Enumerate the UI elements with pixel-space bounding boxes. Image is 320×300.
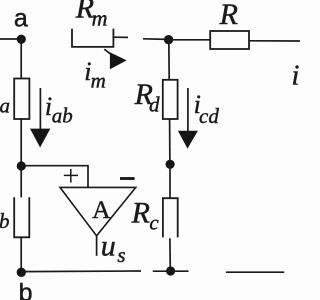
wire Rb to node b xyxy=(20,237,22,272)
svg-text:u: u xyxy=(101,229,116,262)
svg-text:R: R xyxy=(131,197,150,230)
wire node down to Rd xyxy=(168,40,170,80)
resistor Rm label xyxy=(75,0,108,30)
resistor Rd label xyxy=(134,78,160,116)
resistor Rc label xyxy=(131,197,160,235)
wire Rc to bottom node xyxy=(169,238,171,271)
wire to op-amp + input xyxy=(21,166,88,188)
resistor Rc (open bottom) xyxy=(163,198,178,237)
output voltage label u_s xyxy=(101,229,126,267)
svg-text:ab: ab xyxy=(52,104,73,128)
op-amp output lead xyxy=(96,236,98,256)
resistor R xyxy=(210,31,249,49)
svg-text:a: a xyxy=(14,5,28,33)
wire Ra to mid-left node xyxy=(20,119,22,166)
wire mid-left node down to Rb xyxy=(20,166,22,197)
resistor Rb (open top) xyxy=(14,197,29,237)
svg-text:d: d xyxy=(149,93,160,117)
node between Rd and Rc (d) xyxy=(166,160,175,169)
current label i_ab xyxy=(45,92,73,128)
svg-text:b: b xyxy=(0,209,10,233)
current label i_cd xyxy=(194,90,220,128)
wire bottom-right segment xyxy=(226,271,284,273)
wire Rd to mid node xyxy=(169,119,171,164)
wire bottom segment from node b xyxy=(21,270,141,273)
current arrow i_ab xyxy=(30,88,50,148)
svg-text:m: m xyxy=(91,68,106,92)
svg-text:m: m xyxy=(92,5,108,30)
wire stub right of Rm xyxy=(113,36,128,38)
wire R to right edge xyxy=(249,40,300,42)
op-amp + terminal xyxy=(64,169,78,183)
resistor Ra xyxy=(14,79,29,120)
wire node to resistor R xyxy=(169,39,211,41)
resistor Rm (open top) xyxy=(72,29,113,47)
wire into top-middle node xyxy=(143,38,168,41)
op-amp - terminal xyxy=(120,177,135,180)
resistor Rd xyxy=(163,80,178,119)
wire node a down to Ra xyxy=(20,39,22,79)
svg-text:cd: cd xyxy=(199,104,219,128)
svg-text:R: R xyxy=(219,0,238,31)
wire node down to Rc xyxy=(169,164,171,198)
svg-text:i: i xyxy=(291,59,299,91)
node between Ra and Rb xyxy=(17,161,26,170)
node b xyxy=(17,268,26,277)
wire top-left to node a xyxy=(0,38,21,40)
svg-text:b: b xyxy=(19,279,33,300)
node bottom-middle xyxy=(166,266,175,275)
svg-text:s: s xyxy=(117,243,125,267)
node a xyxy=(17,35,26,44)
node top-middle (c) xyxy=(164,35,173,44)
wire bottom segment through bottom node xyxy=(153,270,189,272)
current arrow i_cd xyxy=(178,88,198,149)
svg-text:c: c xyxy=(149,211,159,235)
op-amp A (triangle) xyxy=(60,187,136,235)
svg-text:A: A xyxy=(92,195,111,224)
svg-text:a: a xyxy=(0,94,10,118)
current arrow i_m xyxy=(104,49,126,69)
current label i_m xyxy=(84,57,106,93)
